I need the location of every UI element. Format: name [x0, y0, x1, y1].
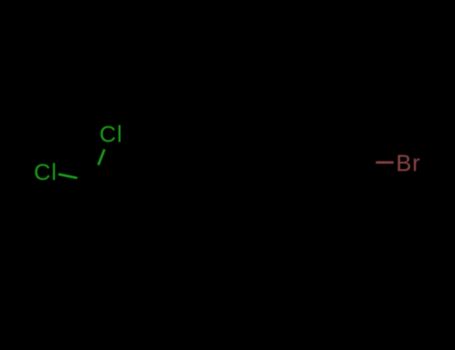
- bond C-Br, dark red half near Br label: [376, 161, 394, 163]
- wire skeleton C-C bonds (black on black, invisible in source): [59, 150, 358, 196]
- svg-text:Cl: Cl: [99, 121, 123, 147]
- bond C-Cl (left), green half near Cl label: [58, 174, 77, 178]
- bond C-Cl (upper), green half near Cl label: [98, 149, 104, 165]
- svg-text:Br: Br: [396, 150, 421, 176]
- svg-text:Cl: Cl: [34, 159, 58, 185]
